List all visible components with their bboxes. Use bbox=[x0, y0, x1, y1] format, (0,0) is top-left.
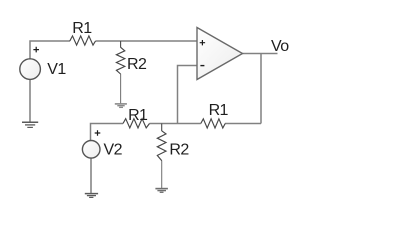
svg-text:R1: R1 bbox=[72, 20, 92, 37]
ground R2 first bbox=[115, 104, 127, 108]
svg-text:V2: V2 bbox=[104, 142, 123, 159]
ground V2 bbox=[85, 194, 98, 198]
wire bottom horizontal bbox=[91, 124, 262, 141]
wire output branch down bbox=[260, 54, 262, 124]
wire R2b to ground bbox=[161, 161, 163, 189]
plus sign V1 bbox=[33, 47, 39, 53]
plus sign V2 bbox=[95, 130, 101, 136]
resistor R1 second (zigzag) bbox=[123, 119, 150, 128]
wire minus input bbox=[178, 66, 198, 124]
wire V2 to ground bbox=[90, 158, 92, 193]
ground V1 bbox=[22, 122, 38, 127]
op-amp minus input symbol bbox=[200, 65, 204, 67]
resistor R1 top (zigzag) bbox=[70, 36, 96, 45]
wire R2a lead top bbox=[120, 41, 122, 48]
svg-text:R1: R1 bbox=[209, 102, 229, 119]
wire R2b lead top bbox=[161, 124, 163, 132]
source V1 (circle) bbox=[20, 59, 41, 80]
wire top horizontal from V1 to op-amp plus input bbox=[30, 41, 197, 59]
op-amp U1 (triangle) bbox=[197, 28, 243, 80]
svg-text:V1: V1 bbox=[47, 61, 66, 78]
svg-text:R2: R2 bbox=[127, 56, 147, 73]
wire V1 to ground bbox=[29, 80, 31, 122]
op-amp plus input symbol bbox=[200, 40, 205, 45]
svg-text:R2: R2 bbox=[169, 141, 189, 158]
resistor R2 second (vertical zigzag) bbox=[157, 131, 166, 161]
resistor R2 first (vertical zigzag) bbox=[116, 47, 124, 74]
wire output bbox=[243, 53, 278, 55]
svg-text:Vo: Vo bbox=[271, 38, 289, 55]
wire R2a to ground bbox=[120, 74, 122, 104]
svg-text:R1: R1 bbox=[128, 107, 148, 124]
source V2 (circle) bbox=[82, 141, 100, 159]
ground R2 second bbox=[155, 189, 168, 193]
resistor R1 third feedback (zigzag) bbox=[201, 119, 225, 128]
